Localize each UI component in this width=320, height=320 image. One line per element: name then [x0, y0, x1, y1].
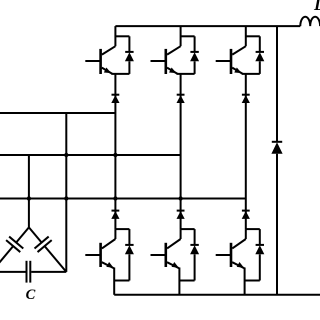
wire: lower emitter to bottom rail leg 3 [244, 268, 246, 295]
wire: upper diode branch leg 2 [194, 36, 196, 74]
svg-text:C: C [26, 287, 36, 303]
wire: cap vertical from phase1 to delta right corner [65, 113, 67, 272]
wire: leg 1 from emitter to phase [114, 74, 116, 113]
wire: upper diode branch leg 3 [259, 36, 261, 74]
label L [313, 0, 320, 14]
node: capvert1-phase3 junction [27, 196, 31, 200]
wire: upper emitter line leg 2 [177, 73, 195, 75]
wire: phase line 1 [0, 112, 115, 114]
wire: negative DC rail [114, 294, 320, 296]
label C [26, 287, 36, 303]
node: leg2-phase3 junction [178, 196, 182, 200]
wire: leg 2 from emitter to phase [180, 74, 182, 155]
wire: positive DC rail [115, 25, 300, 27]
wire: upper emitter line leg 1 [111, 73, 129, 75]
diode antiparallel lower leg 3 [255, 245, 264, 254]
inductor L [300, 17, 320, 26]
wire: delta right side [29, 227, 66, 272]
wire: lower emitter to bottom rail leg 1 [113, 268, 115, 295]
wire: leg 1 lower section [114, 113, 116, 229]
IGBT Q2 lower leg 1 [85, 229, 115, 269]
wire: clamp diode branch [276, 26, 278, 295]
diode series lower leg 3 [242, 211, 250, 219]
IGBT Q4 lower leg 2 [151, 229, 181, 269]
IGBT Q3 upper leg 2 [151, 46, 181, 74]
wire: jog to lower diode branch leg 1 [115, 228, 129, 230]
wire: leg 3 from emitter to phase [245, 74, 247, 199]
IGBT Q1 upper leg 1 [85, 46, 115, 74]
IGBT Q6 lower leg 3 [216, 229, 246, 269]
capacitor C bottom delta [27, 261, 31, 283]
wire: phase line 2 [0, 154, 181, 156]
wire: cap vertical from phase2 to delta apex [28, 155, 30, 227]
diode series upper leg 1 [111, 95, 119, 103]
wire: lower emitter line leg 1 [114, 280, 129, 282]
node: leg1-phase2 junction [113, 153, 117, 157]
diode clamp [271, 142, 282, 154]
wire: lower emitter line leg 3 [245, 280, 260, 282]
wire: leg 3 lower section [245, 199, 247, 230]
wire: delta bottom side [0, 271, 66, 273]
wire: jog to lower diode branch leg 2 [181, 228, 195, 230]
wire: leg 2 upper drop from rail [180, 26, 182, 46]
diode series lower leg 2 [177, 211, 185, 219]
wire: jog to upper diode branch leg 2 [181, 35, 195, 37]
diode antiparallel upper leg 2 [190, 52, 199, 61]
IGBT Q5 upper leg 3 [216, 46, 246, 74]
diode antiparallel lower leg 1 [125, 245, 134, 254]
wire: phase line 3 [0, 198, 246, 200]
capacitor C right delta [35, 237, 52, 253]
wire: leg 3 upper drop from rail [245, 26, 247, 46]
wire: lower diode branch leg 1 [128, 229, 130, 280]
diode antiparallel upper leg 3 [255, 52, 264, 61]
svg-text:L: L [313, 0, 320, 14]
wire: upper emitter line leg 3 [242, 73, 260, 75]
diode series lower leg 1 [111, 211, 119, 219]
wire: upper diode branch leg 1 [128, 36, 130, 74]
wire: jog to lower diode branch leg 3 [246, 228, 260, 230]
node: leg1-phase3 junction [113, 196, 117, 200]
diode antiparallel lower leg 2 [190, 245, 199, 254]
node: capvert2-phase3 junction [64, 196, 68, 200]
wire: leg 2 lower section [180, 155, 182, 229]
diode series upper leg 2 [177, 95, 185, 103]
wire: lower diode branch leg 2 [194, 229, 196, 280]
wire: lower diode branch leg 3 [259, 229, 261, 280]
wire: jog to upper diode branch leg 3 [246, 35, 260, 37]
diode antiparallel upper leg 1 [125, 52, 134, 61]
wire: leg 1 upper drop from rail [114, 26, 116, 46]
wire: delta left side [0, 227, 29, 272]
wire: jog to upper diode branch leg 1 [115, 35, 129, 37]
diode series upper leg 3 [242, 95, 250, 103]
wire: lower emitter line leg 2 [179, 280, 194, 282]
node: capvert2-phase2 junction [64, 153, 68, 157]
wire: lower emitter to bottom rail leg 2 [178, 268, 180, 295]
capacitor C left delta [6, 237, 23, 253]
